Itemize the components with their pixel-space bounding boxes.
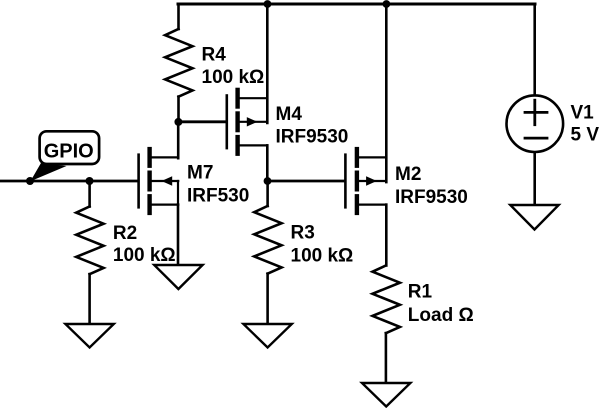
- svg-text:Load Ω: Load Ω: [408, 305, 474, 326]
- wire M2 drain down to R1: [385, 205, 388, 266]
- wire R2 top lead: [88, 181, 91, 207]
- wire GPIO input to M7 gate: [1, 180, 137, 183]
- svg-text:5 V: 5 V: [571, 125, 600, 146]
- ground below M7: [154, 265, 202, 289]
- svg-text:IRF530: IRF530: [187, 185, 249, 206]
- svg-text:100 kΩ: 100 kΩ: [202, 67, 265, 88]
- svg-text:M4: M4: [276, 104, 303, 125]
- GPIO callout box: [40, 131, 100, 164]
- svg-text:100 kΩ: 100 kΩ: [113, 245, 176, 266]
- wire R1 bottom lead to ground: [385, 333, 388, 383]
- wire V1 negative lead to ground: [533, 153, 536, 206]
- ground below R3: [243, 324, 291, 348]
- svg-text:R4: R4: [202, 45, 227, 66]
- wire node A to M2 gate: [268, 180, 345, 183]
- voltage source V1: [507, 95, 564, 152]
- junction dot top rail / M2 source: [383, 0, 391, 8]
- wire R2 bottom lead to ground: [88, 274, 91, 324]
- svg-text:R2: R2: [113, 223, 137, 244]
- transistor M2 (P-MOSFET IRF9530): [345, 149, 386, 213]
- svg-text:100 kΩ: 100 kΩ: [291, 246, 354, 267]
- GPIO callout pointer: [30, 163, 66, 181]
- ground below R2: [65, 324, 113, 348]
- wire node to M4 gate: [178, 120, 225, 123]
- svg-text:IRF9530: IRF9530: [276, 127, 349, 148]
- junction dot top rail / M4 source: [264, 0, 272, 8]
- junction dot GPIO callout tap: [26, 177, 34, 185]
- junction dot R4 / M4 gate / M7 drain node: [174, 118, 182, 126]
- svg-text:V1: V1: [571, 103, 595, 124]
- resistor R1: [373, 266, 400, 334]
- svg-text:M7: M7: [187, 163, 213, 184]
- svg-text:R3: R3: [291, 223, 315, 244]
- wire node down to M7 drain: [177, 122, 180, 158]
- ground below V1: [510, 205, 558, 230]
- wire R3 top lead: [266, 181, 269, 206]
- wire M4 source/body up to rail: [266, 4, 269, 123]
- svg-text:R1: R1: [408, 282, 433, 303]
- junction dot node A (M4 drain / R3 / M2 gate): [264, 177, 272, 185]
- wire top power rail: [178, 3, 535, 6]
- svg-text:IRF9530: IRF9530: [395, 187, 468, 208]
- resistor R2: [76, 207, 103, 275]
- svg-text:M2: M2: [395, 164, 421, 185]
- ground below R1: [362, 383, 410, 407]
- junction dot R2 tap: [86, 177, 94, 185]
- wire R4 bottom lead to node: [177, 97, 180, 122]
- wire R4 top lead from rail: [177, 4, 180, 29]
- wire M7 source to ground: [177, 205, 180, 265]
- wire M7 body/source junction down: [177, 181, 179, 205]
- resistor R3: [254, 206, 281, 274]
- transistor M7 (N-MOSFET IRF530): [139, 149, 179, 213]
- resistor R4: [165, 29, 192, 97]
- svg-text:GPIO: GPIO: [44, 141, 94, 163]
- wire V1 positive lead (rail right corner down to V1 circle): [533, 4, 536, 95]
- wire R3 bottom lead to ground: [266, 274, 269, 324]
- transistor M4 (P-MOSFET IRF9530): [227, 90, 267, 154]
- wire M4 drain down to node A: [266, 145, 269, 181]
- wire M2 source/body up to rail: [385, 4, 388, 182]
